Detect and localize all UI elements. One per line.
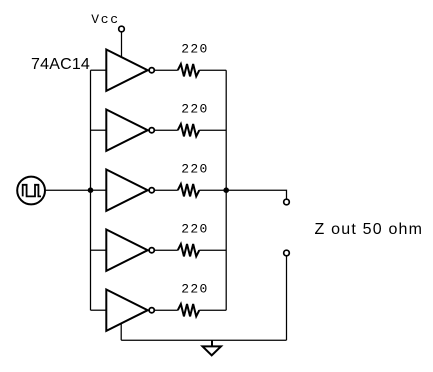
- svg-text:220: 220: [181, 102, 208, 117]
- ground symbol: [203, 340, 222, 355]
- square-wave source V1: [17, 177, 45, 205]
- resistor R3 220: [178, 184, 200, 196]
- wire lower terminal to bottom return: [286, 256, 288, 340]
- svg-text:220: 220: [181, 222, 208, 237]
- inverter 5 (74AC14): [106, 290, 154, 331]
- inverter 1 (74AC14): [106, 50, 154, 91]
- wire resistor 5 to output bus: [199, 309, 226, 311]
- wire inverter 4 output to resistor 4: [154, 249, 178, 251]
- svg-text:220: 220: [181, 282, 208, 297]
- lower output terminal pin: [284, 250, 290, 256]
- svg-text:220: 220: [181, 162, 208, 177]
- inverter 4 (74AC14): [106, 230, 154, 271]
- wire inverter 1 input stub: [91, 69, 107, 71]
- resistor R5 220: [178, 304, 200, 316]
- junction output bus: [223, 187, 229, 193]
- junction input bus: [88, 187, 94, 193]
- inverter 3 (74AC14): [106, 170, 154, 211]
- bottom return wire: [121, 339, 286, 341]
- wire resistor 4 to output bus: [199, 249, 226, 251]
- wire inverter 5 input stub: [91, 309, 107, 311]
- wire source to input bus: [46, 189, 91, 191]
- wire inverter 4 input stub: [91, 249, 107, 251]
- wire resistor 1 to output bus: [199, 69, 226, 71]
- Vcc terminal pin: [119, 26, 125, 32]
- svg-text:Z out 50 ohm: Z out 50 ohm: [315, 221, 424, 238]
- wire inverter 2 input stub: [91, 129, 107, 131]
- wire output bus to upper terminal: [226, 190, 286, 199]
- svg-text:Vcc: Vcc: [91, 12, 120, 27]
- resistor R2 220: [178, 124, 200, 136]
- wire inverter 1 output to resistor 1: [154, 69, 178, 71]
- wire inverter 5 ground pin stub: [120, 323, 122, 340]
- wire inverter 3 input stub: [91, 189, 107, 191]
- output bus vertical wire: [225, 70, 227, 310]
- wire resistor 2 to output bus: [199, 129, 226, 131]
- upper output terminal pin: [284, 199, 290, 205]
- input bus vertical wire: [90, 70, 92, 310]
- resistor R1 220: [178, 64, 200, 76]
- wire resistor 3 to output bus: [199, 189, 226, 191]
- wire inverter 5 output to resistor 5: [154, 309, 178, 311]
- wire inverter 2 output to resistor 2: [154, 129, 178, 131]
- svg-text:220: 220: [181, 42, 208, 57]
- wire Vcc pin to inverter 1 power pin: [121, 32, 123, 58]
- resistor R4 220: [178, 244, 200, 256]
- svg-text:74AC14: 74AC14: [31, 56, 90, 73]
- wire inverter 3 output to resistor 3: [154, 189, 178, 191]
- inverter 2 (74AC14): [106, 110, 154, 151]
